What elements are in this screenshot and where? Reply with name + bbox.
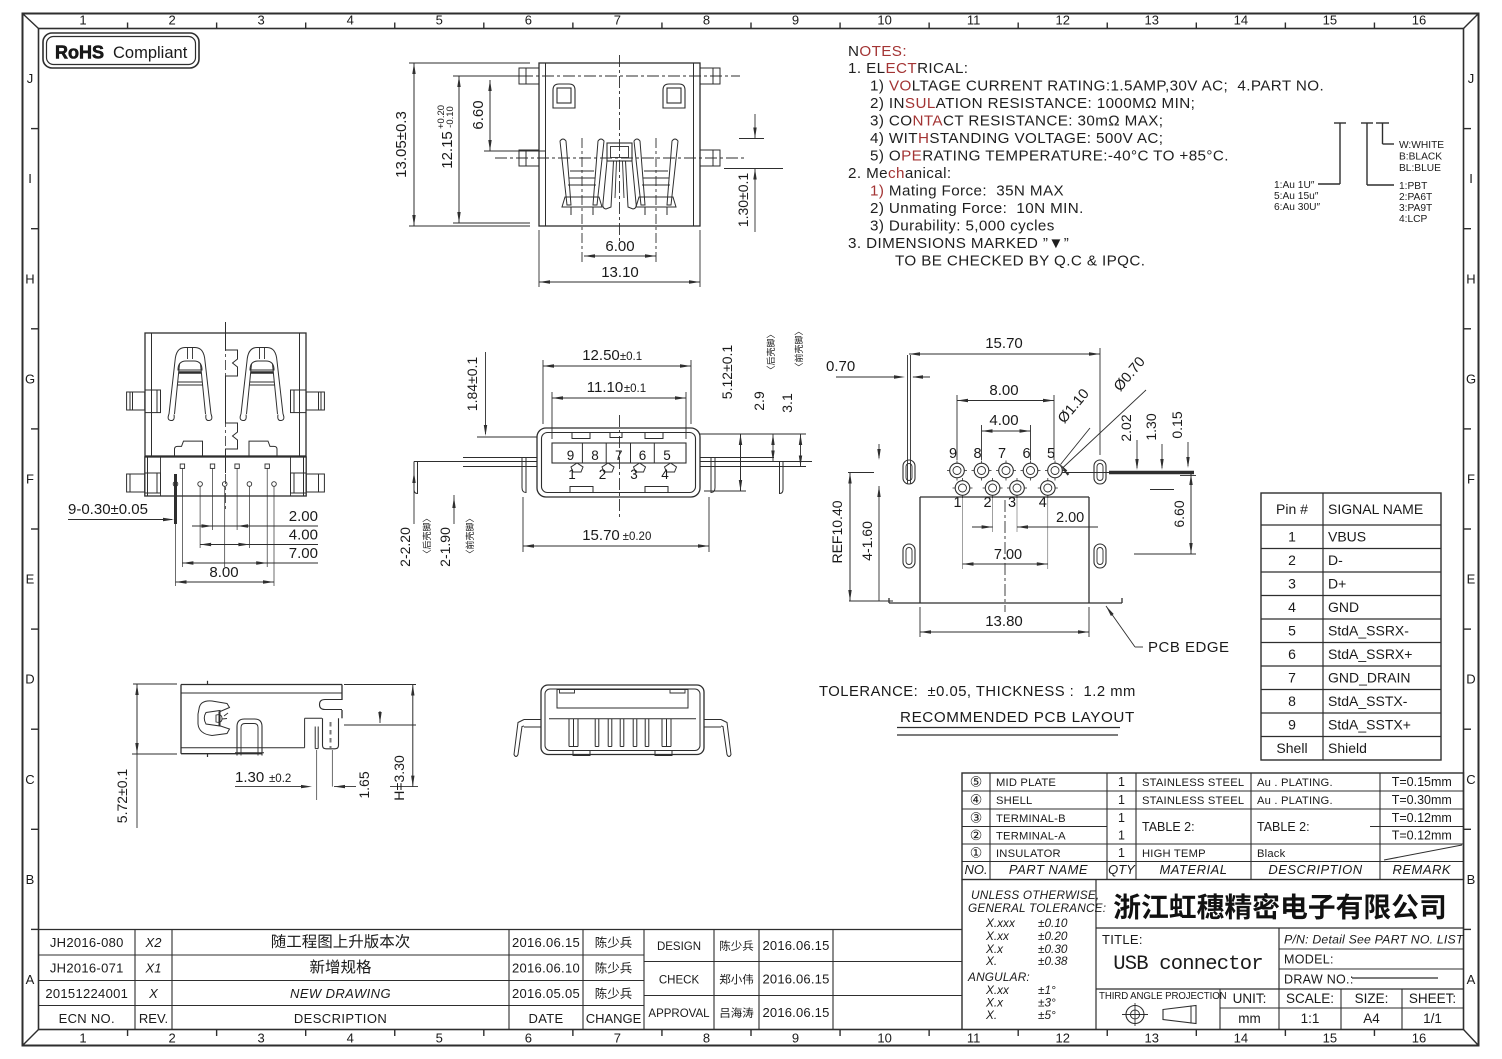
svg-text:4: 4 xyxy=(347,1031,354,1046)
svg-text:Pin #: Pin # xyxy=(1276,501,1308,517)
view B pin leads row 1 xyxy=(180,464,269,567)
svg-text:2016.06.15: 2016.06.15 xyxy=(512,935,580,950)
view B pin leads row 2 xyxy=(173,482,276,586)
svg-text:8.00: 8.00 xyxy=(989,382,1018,399)
view A contact spring left pair xyxy=(560,139,604,215)
svg-text:±5°: ±5° xyxy=(1038,1008,1056,1022)
svg-text:6.00: 6.00 xyxy=(605,238,634,255)
dim 11.10±0.1 xyxy=(552,379,686,439)
svg-text:±0.1: ±0.1 xyxy=(620,351,642,363)
svg-text:Black: Black xyxy=(1257,848,1286,860)
svg-text:1.30: 1.30 xyxy=(235,769,264,786)
view B pegs right xyxy=(291,390,325,493)
svg-text:5: 5 xyxy=(1288,623,1296,639)
recommended pcb layout heading xyxy=(897,709,1135,735)
revision table grid xyxy=(39,930,963,1030)
svg-text:T=0.30mm: T=0.30mm xyxy=(1392,793,1452,807)
svg-text:Compliant: Compliant xyxy=(113,44,188,62)
svg-text:UNLESS OTHERWISE,: UNLESS OTHERWISE, xyxy=(971,888,1099,902)
ruler column ticks bottom xyxy=(127,1030,129,1037)
svg-text:13: 13 xyxy=(1145,1031,1159,1046)
svg-text:HIGH TEMP: HIGH TEMP xyxy=(1142,848,1206,860)
svg-text:STAINLESS STEEL: STAINLESS STEEL xyxy=(1142,795,1244,807)
dim 2.00 view B xyxy=(192,508,318,528)
svg-text:C: C xyxy=(1466,772,1475,787)
svg-text:StdA_SSTX+: StdA_SSTX+ xyxy=(1328,717,1411,733)
pcb pads row A (9-5) xyxy=(947,461,1065,481)
view A center line horizontal upper xyxy=(500,75,740,77)
dim 0.15 xyxy=(1169,411,1196,475)
dim 4-1.60 xyxy=(859,444,881,601)
svg-text:REV.: REV. xyxy=(139,1011,168,1026)
svg-text:X.xxx: X.xxx xyxy=(985,916,1016,930)
svg-text:APPROVAL: APPROVAL xyxy=(648,1008,710,1020)
svg-text:D: D xyxy=(1466,672,1475,687)
svg-text:1: 1 xyxy=(79,13,86,28)
view A square hole left xyxy=(553,84,575,108)
pcb leg projection double line xyxy=(908,355,911,484)
svg-text:1: 1 xyxy=(79,1031,86,1046)
svg-text:REF10.40: REF10.40 xyxy=(829,500,845,563)
svg-text:P/N: Detail See PART NO. LIST: P/N: Detail See PART NO. LIST xyxy=(1284,933,1465,947)
view C lower contacts xyxy=(571,463,677,472)
pcb oval hole bottom-right xyxy=(1094,544,1106,568)
view B retention clip left xyxy=(168,348,212,421)
svg-text:USB connector: USB connector xyxy=(1113,953,1263,976)
svg-text:1. ELECTRICAL:: 1. ELECTRICAL: xyxy=(848,60,968,77)
svg-text:BL:BLUE: BL:BLUE xyxy=(1399,163,1441,174)
pcb edge thick line xyxy=(1109,471,1194,474)
svg-text:4: 4 xyxy=(347,13,354,28)
svg-text:JH2016-080: JH2016-080 xyxy=(50,935,124,950)
svg-text:B:BLACK: B:BLACK xyxy=(1399,152,1442,163)
svg-text:TABLE 2:: TABLE 2: xyxy=(1142,820,1195,834)
svg-text:13.80: 13.80 xyxy=(985,613,1023,630)
svg-text:15: 15 xyxy=(1323,1031,1337,1046)
svg-text:MID PLATE: MID PLATE xyxy=(996,777,1056,789)
dim 2.00 pcb xyxy=(972,497,1098,532)
view A mounting pegs left xyxy=(519,68,539,166)
svg-text:13.10: 13.10 xyxy=(601,264,639,281)
svg-text:9-0.30±0.05: 9-0.30±0.05 xyxy=(68,501,148,518)
dim 7.00 pcb xyxy=(963,497,1048,569)
notes text block xyxy=(848,43,1324,270)
svg-text:StdA_SSRX+: StdA_SSRX+ xyxy=(1328,646,1412,662)
svg-text:15: 15 xyxy=(1323,13,1337,28)
svg-text:D: D xyxy=(25,672,34,687)
svg-text:4-1.60: 4-1.60 xyxy=(859,521,875,561)
leader dia 0.70 xyxy=(1061,354,1149,476)
svg-text:12: 12 xyxy=(1055,1031,1069,1046)
svg-text:9: 9 xyxy=(792,13,799,28)
svg-text:2:PA6T: 2:PA6T xyxy=(1399,192,1432,203)
ruler row ticks left xyxy=(31,128,39,130)
svg-text:1: 1 xyxy=(1118,775,1125,789)
svg-text:±0.38: ±0.38 xyxy=(1038,954,1068,968)
svg-text:C: C xyxy=(25,772,34,787)
svg-text:H: H xyxy=(1466,271,1475,286)
svg-text:5: 5 xyxy=(436,1031,443,1046)
dim 2-1.90 front legs xyxy=(437,495,474,567)
svg-text:DESCRIPTION: DESCRIPTION xyxy=(294,1011,387,1026)
svg-text:9: 9 xyxy=(949,446,957,462)
svg-text:2) INSULATION RESISTANCE: 1000: 2) INSULATION RESISTANCE: 1000MΩ MIN; xyxy=(870,95,1195,112)
svg-text:⑤: ⑤ xyxy=(970,774,983,790)
svg-text:B: B xyxy=(1467,872,1476,887)
dim 0.70 pcb xyxy=(826,358,930,380)
view E tongue area xyxy=(557,690,688,709)
svg-text:INSULATOR: INSULATOR xyxy=(996,848,1061,860)
dim 2-2.20 rear legs xyxy=(397,470,431,567)
svg-text:GENERAL TOLERANCE:: GENERAL TOLERANCE: xyxy=(968,901,1106,915)
svg-text:8: 8 xyxy=(1288,693,1296,709)
svg-text:2-2.20: 2-2.20 xyxy=(397,527,413,567)
approval rows xyxy=(648,938,829,1020)
svg-text:X2: X2 xyxy=(145,935,163,950)
svg-text:TABLE 2:: TABLE 2: xyxy=(1257,820,1310,834)
svg-text:I: I xyxy=(28,171,32,186)
svg-text:I: I xyxy=(1469,171,1473,186)
svg-text:D-: D- xyxy=(1328,552,1343,568)
dim 13.05±0.3 xyxy=(393,63,530,226)
view B retention clip right xyxy=(240,348,284,421)
leader 9-0.30±0.05 xyxy=(68,501,174,521)
svg-text:4:LCP: 4:LCP xyxy=(1399,214,1428,225)
svg-text:±0.1: ±0.1 xyxy=(624,383,646,395)
view C center line xyxy=(619,415,621,520)
svg-text:1: 1 xyxy=(1118,846,1125,860)
svg-text:H=3.30: H=3.30 xyxy=(391,755,407,801)
svg-text:2.00: 2.00 xyxy=(289,508,318,525)
svg-text:RoHS: RoHS xyxy=(55,43,104,63)
svg-text:②: ② xyxy=(970,827,983,843)
view B pegs left xyxy=(127,390,161,493)
title cell xyxy=(1102,932,1263,976)
ruler row letters right xyxy=(1466,71,1476,987)
svg-text:1:Au 1U″: 1:Au 1U″ xyxy=(1274,180,1315,191)
legend plating labels xyxy=(1274,180,1320,213)
svg-text:5: 5 xyxy=(663,448,671,463)
dim 15.70 pcb xyxy=(909,335,1100,455)
view A ref dash line left spring xyxy=(581,138,583,262)
svg-text:8: 8 xyxy=(703,13,710,28)
svg-text:4: 4 xyxy=(1288,599,1296,615)
pcb edge label xyxy=(1105,605,1230,656)
svg-text:6: 6 xyxy=(639,448,647,463)
view A center line vertical xyxy=(619,55,621,243)
svg-text:X.: X. xyxy=(985,954,997,968)
svg-text:A: A xyxy=(26,972,35,987)
svg-text:W:WHITE: W:WHITE xyxy=(1399,140,1444,151)
corner diagonal top-right xyxy=(1464,14,1479,29)
bom table grid xyxy=(962,773,1464,880)
svg-text:MODEL:: MODEL: xyxy=(1284,953,1334,967)
svg-text:①: ① xyxy=(970,845,983,861)
svg-text:10: 10 xyxy=(877,13,891,28)
svg-text:11: 11 xyxy=(967,1031,981,1046)
svg-text:T=0.12mm: T=0.12mm xyxy=(1392,829,1452,843)
view E contact comb xyxy=(569,719,671,747)
svg-text:SCALE:: SCALE: xyxy=(1286,991,1334,1006)
svg-text:2016.06.15: 2016.06.15 xyxy=(762,972,829,987)
svg-text:6:Au 30U″: 6:Au 30U″ xyxy=(1274,202,1320,213)
svg-text:H: H xyxy=(25,271,34,286)
svg-text:DRAW NO.:: DRAW NO.: xyxy=(1284,973,1354,987)
svg-text:2.9: 2.9 xyxy=(751,391,767,411)
dim 1.84±0.1 xyxy=(464,352,537,437)
svg-text:1: 1 xyxy=(1118,829,1125,843)
view B center seam line xyxy=(226,322,238,473)
view E legs right xyxy=(704,720,731,757)
pcb footprint outline xyxy=(889,497,1122,603)
svg-text:1: 1 xyxy=(1118,811,1125,825)
svg-text:Au . PLATING.: Au . PLATING. xyxy=(1257,795,1333,807)
corner diagonal bottom-left xyxy=(23,1030,39,1046)
svg-text:ANGULAR:: ANGULAR: xyxy=(967,970,1030,984)
svg-text:JH2016-071: JH2016-071 xyxy=(50,961,124,976)
svg-text:ECN NO.: ECN NO. xyxy=(59,1011,115,1026)
svg-text:2: 2 xyxy=(168,1031,175,1046)
svg-text:GND: GND xyxy=(1328,599,1359,615)
svg-text:15.70: 15.70 xyxy=(582,527,620,544)
bom rows text xyxy=(970,774,1452,861)
svg-text:6: 6 xyxy=(525,13,532,28)
draw no cell xyxy=(1284,973,1438,987)
svg-text:1.84±0.1: 1.84±0.1 xyxy=(464,357,480,412)
svg-text:2: 2 xyxy=(168,13,175,28)
dim 6.60 xyxy=(470,80,545,151)
svg-text:1:PBT: 1:PBT xyxy=(1399,181,1427,192)
svg-text:5: 5 xyxy=(436,13,443,28)
svg-text:20151224001: 20151224001 xyxy=(45,986,128,1001)
svg-text:6: 6 xyxy=(525,1031,532,1046)
svg-text:X.: X. xyxy=(985,1008,997,1022)
svg-text:NO.: NO. xyxy=(964,862,987,877)
dim 1.30±0.2 xyxy=(235,750,317,800)
pcb oval hole bottom-left xyxy=(903,544,915,568)
svg-text:T=0.12mm: T=0.12mm xyxy=(1392,811,1452,825)
svg-text:X1: X1 xyxy=(145,961,162,976)
svg-text:13: 13 xyxy=(1145,13,1159,28)
svg-text:2-1.90: 2-1.90 xyxy=(437,527,453,567)
svg-text:5.72±0.1: 5.72±0.1 xyxy=(114,769,130,824)
svg-text:3: 3 xyxy=(258,1031,265,1046)
svg-text:1.65: 1.65 xyxy=(356,771,372,798)
view B small tabs on base xyxy=(175,441,278,456)
svg-text:QTY: QTY xyxy=(1108,862,1136,877)
bom header row xyxy=(964,862,1451,877)
svg-text:15.70: 15.70 xyxy=(985,335,1023,352)
svg-text:G: G xyxy=(25,371,35,386)
svg-text:THIRD ANGLE PROJECTION: THIRD ANGLE PROJECTION xyxy=(1099,991,1227,1002)
svg-text:GND_DRAIN: GND_DRAIN xyxy=(1328,670,1410,686)
dim 7.00 view B xyxy=(182,545,318,565)
title block grid xyxy=(962,880,1464,1030)
view B shell top view body xyxy=(145,333,306,456)
svg-text:E: E xyxy=(26,572,35,587)
svg-text:CHECK: CHECK xyxy=(659,975,700,987)
svg-text:X: X xyxy=(148,986,159,1001)
view A center line horizontal lower xyxy=(495,157,745,159)
svg-text:8.00: 8.00 xyxy=(209,564,238,581)
view E shell outline xyxy=(541,685,704,755)
svg-text:J: J xyxy=(27,71,34,86)
view A center contact xyxy=(603,143,636,209)
svg-text:16: 16 xyxy=(1412,1031,1426,1046)
svg-text:7: 7 xyxy=(615,448,623,463)
svg-text:TOLERANCE: ±0.05, THICKNESS :: TOLERANCE: ±0.05, THICKNESS : 1.2 mm xyxy=(819,684,1136,700)
svg-text:B: B xyxy=(26,872,35,887)
view A contact spring right pair xyxy=(634,139,678,215)
pin signal table xyxy=(1261,493,1441,760)
svg-text:6.60: 6.60 xyxy=(1171,500,1187,527)
svg-text:5.12±0.1: 5.12±0.1 xyxy=(719,345,735,400)
svg-text:2) Unmating Force: 10N MIN.: 2) Unmating Force: 10N MIN. xyxy=(870,200,1084,217)
svg-text:T=0.15mm: T=0.15mm xyxy=(1392,775,1452,789)
svg-text:A: A xyxy=(1467,972,1476,987)
svg-text:12.15: 12.15 xyxy=(439,131,456,169)
svg-text:7: 7 xyxy=(1288,670,1296,686)
svg-text:14: 14 xyxy=(1234,13,1248,28)
svg-text:2016.06.15: 2016.06.15 xyxy=(762,1005,829,1020)
dim 5.12±0.1 xyxy=(704,345,746,491)
svg-text:3) Durability: 5,000 cycles: 3) Durability: 5,000 cycles xyxy=(870,218,1055,235)
svg-text:3: 3 xyxy=(630,467,638,482)
legend material labels xyxy=(1399,181,1432,225)
view C shell legs left xyxy=(414,458,537,494)
svg-text:StdA_SSTX-: StdA_SSTX- xyxy=(1328,693,1408,709)
svg-text:5:Au 15u″: 5:Au 15u″ xyxy=(1274,191,1319,202)
svg-text:2.00: 2.00 xyxy=(1056,510,1084,526)
ruler column numbers bottom xyxy=(79,1031,1426,1046)
svg-text:9: 9 xyxy=(792,1031,799,1046)
svg-text:X.xx: X.xx xyxy=(985,929,1010,943)
svg-text:7: 7 xyxy=(614,1031,621,1046)
svg-text:DESIGN: DESIGN xyxy=(657,941,701,953)
svg-text:9: 9 xyxy=(567,448,575,463)
dim 15.70±0.20 xyxy=(523,497,709,552)
view D body xyxy=(181,681,342,757)
pcb center line xyxy=(1004,500,1006,612)
dim 8.00 pcb xyxy=(957,382,1054,460)
svg-text:2: 2 xyxy=(599,467,607,482)
view A front view shell body xyxy=(539,63,700,226)
svg-text:UNIT:: UNIT: xyxy=(1233,991,1267,1006)
svg-text:13.05±0.3: 13.05±0.3 xyxy=(393,111,410,178)
leader dia 1.10 xyxy=(1055,386,1093,472)
svg-text:SIZE:: SIZE: xyxy=(1355,991,1389,1006)
dim REF10.40 xyxy=(829,473,893,602)
view C top edge windows xyxy=(572,433,663,439)
svg-text:J: J xyxy=(1468,71,1475,86)
legend material bracket xyxy=(1361,123,1394,185)
view E shelf line xyxy=(549,718,696,720)
pcb pad numbers row B xyxy=(953,495,1046,511)
svg-text:TITLE:: TITLE: xyxy=(1102,932,1143,947)
svg-text:3. DIMENSIONS MARKED ”▼”: 3. DIMENSIONS MARKED ”▼” xyxy=(848,235,1069,252)
svg-text:14: 14 xyxy=(1234,1031,1248,1046)
svg-text:MATERIAL: MATERIAL xyxy=(1159,862,1227,877)
dim 12.15 +0.20 -0.10 xyxy=(436,76,530,223)
svg-text:3:PA9T: 3:PA9T xyxy=(1399,203,1432,214)
svg-text:8: 8 xyxy=(973,446,981,462)
svg-text:12.50: 12.50 xyxy=(582,347,620,364)
svg-text:StdA_SSRX-: StdA_SSRX- xyxy=(1328,623,1409,639)
pcb oval hole top-right xyxy=(1094,460,1106,484)
svg-text:PART NAME: PART NAME xyxy=(1009,862,1088,877)
svg-text:7: 7 xyxy=(998,446,1006,462)
view A ref dash line right spring xyxy=(655,138,657,262)
svg-text:0.15: 0.15 xyxy=(1169,411,1185,438)
pcb oval hole top-left xyxy=(903,460,915,484)
legend wire color bracket xyxy=(1376,123,1394,144)
svg-text:G: G xyxy=(1466,371,1476,386)
legend plating bracket xyxy=(1318,123,1346,184)
company name xyxy=(1114,893,1444,920)
view E bottom feet xyxy=(573,751,672,756)
svg-text:1/1: 1/1 xyxy=(1423,1011,1442,1026)
svg-text:1) Mating Force: 35N MAX: 1) Mating Force: 35N MAX xyxy=(870,183,1064,200)
svg-text:4: 4 xyxy=(661,467,669,482)
view D top-right slot xyxy=(320,700,343,710)
svg-text:1) VOLTAGE CURRENT RATING:1.5A: 1) VOLTAGE CURRENT RATING:1.5AMP,30V AC;… xyxy=(870,78,1324,95)
svg-text:2016.06.10: 2016.06.10 xyxy=(512,961,580,976)
bom remark diagonal xyxy=(1384,845,1462,860)
corner diagonal bottom-right xyxy=(1464,1030,1479,1046)
svg-text:1.30: 1.30 xyxy=(1143,413,1159,440)
svg-text:2. Mechanical:: 2. Mechanical: xyxy=(848,165,952,182)
svg-text:F: F xyxy=(26,471,34,486)
svg-text:Shield: Shield xyxy=(1328,740,1367,756)
svg-text:STAINLESS STEEL: STAINLESS STEEL xyxy=(1142,777,1244,789)
svg-text:±0.20: ±0.20 xyxy=(1038,929,1068,943)
dim H=3.30 xyxy=(344,685,418,801)
third angle projection cell xyxy=(1099,991,1227,1026)
svg-text:2016.06.15: 2016.06.15 xyxy=(762,938,829,953)
svg-text:1.30±0.1: 1.30±0.1 xyxy=(735,173,751,228)
view C pin numbers row A xyxy=(567,448,671,463)
legend wire color labels xyxy=(1399,140,1444,174)
svg-text:1: 1 xyxy=(1288,529,1296,545)
corner diagonal top-left xyxy=(23,14,39,29)
ruler row letters left xyxy=(25,71,35,987)
svg-text:REMARK: REMARK xyxy=(1392,862,1451,877)
view A square hole right xyxy=(663,84,685,108)
dim 13.80 xyxy=(920,607,1089,637)
svg-text:9: 9 xyxy=(1288,717,1296,733)
svg-text:3: 3 xyxy=(258,13,265,28)
view C shell outline xyxy=(537,428,700,497)
svg-text:0.70: 0.70 xyxy=(826,358,855,375)
tolerance cell text xyxy=(967,888,1106,1022)
svg-text:SIGNAL NAME: SIGNAL NAME xyxy=(1328,501,1423,517)
svg-text:5) OPERATING TEMPERATURE:-40°C: 5) OPERATING TEMPERATURE:-40°C TO +85°C. xyxy=(870,148,1229,165)
dim 6.00 xyxy=(584,238,656,258)
pcb edge thin continuation xyxy=(1062,472,1109,474)
svg-text:2.02: 2.02 xyxy=(1118,414,1134,441)
svg-text:11.10: 11.10 xyxy=(587,379,623,396)
view A mounting pegs right xyxy=(700,68,720,166)
svg-text:10: 10 xyxy=(877,1031,891,1046)
svg-text:3) CONTACT RESISTANCE: 30mΩ MA: 3) CONTACT RESISTANCE: 30mΩ MAX; xyxy=(870,113,1163,130)
view C pin numbers row B xyxy=(568,467,669,482)
svg-text:-0.10: -0.10 xyxy=(445,106,456,128)
svg-text:Shell: Shell xyxy=(1276,740,1307,756)
dim 2.02 xyxy=(1118,414,1139,470)
view C tongue slot xyxy=(552,443,686,463)
svg-text:±0.2: ±0.2 xyxy=(269,773,291,785)
dim 4.00 pcb xyxy=(982,412,1031,460)
